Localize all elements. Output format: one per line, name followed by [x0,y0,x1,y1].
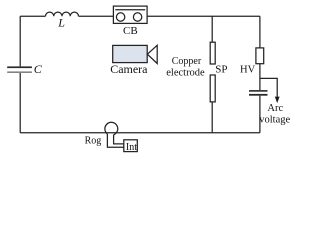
Rogowski coil leads [107,134,123,147]
svg-text:electrode: electrode [166,68,205,79]
arrow arc voltage [275,97,280,104]
svg-text:Camera: Camera [110,62,148,76]
wire inductor to CB [79,15,114,17]
wire arc-voltage tap [260,78,277,96]
svg-text:Rog: Rog [85,136,102,147]
camera body [113,45,148,62]
Rogowski coil [105,122,118,134]
wire middle branch upper [211,16,213,42]
wire right vertical upper [259,16,261,48]
wire top-left segment [20,15,45,17]
circuit breaker CB box [113,6,147,23]
svg-text:CB: CB [123,25,138,37]
camera lens triangle [147,45,157,63]
wire middle branch lower [211,102,213,133]
resistor HV [256,48,264,64]
capacitor C plates [7,66,32,73]
svg-text:C: C [34,62,43,76]
wire left vertical upper [19,16,21,66]
svg-text:SP: SP [215,64,227,76]
svg-text:voltage: voltage [259,115,290,126]
wire right vertical middle [259,64,261,90]
svg-text:HV: HV [240,64,256,75]
wire left vertical lower [19,73,21,133]
svg-text:Copper: Copper [172,56,202,67]
spark gap SP bottom electrode [210,75,215,102]
wire bottom [20,132,260,134]
svg-text:Arc: Arc [267,103,283,114]
wire right vertical lower [259,96,261,133]
spark gap SP top electrode [210,42,215,64]
integrator Int box [124,140,138,152]
svg-text:L: L [57,16,65,30]
svg-text:Int: Int [126,142,137,153]
inductor L [46,12,79,16]
capacitor right plates [249,90,268,96]
wire CB to top-right corner [147,15,260,17]
